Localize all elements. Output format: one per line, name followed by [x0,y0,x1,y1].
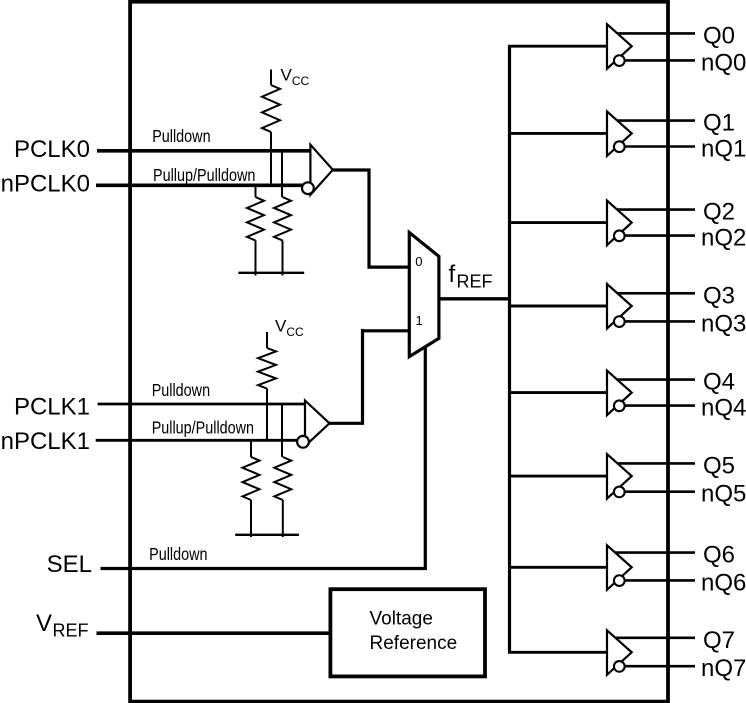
output buffer Q6 triangle [607,545,632,590]
wire nQ4 output line [620,404,695,407]
svg-text:nQ6: nQ6 [701,569,746,596]
wire nPCLK0 input line [96,184,303,188]
svg-text:Reference: Reference [370,633,458,654]
wire pulldown chain from PCLK1 [281,404,283,457]
wire U2 output to mux input 1 [330,329,410,423]
voltage reference block [330,589,485,676]
wire VREF input line [97,631,333,635]
svg-text:nQ4: nQ4 [701,395,746,422]
svg-text:VCC: VCC [281,66,310,89]
wire bus branch to output buffer 1 [508,132,607,135]
resistor pullup to VCC on nPCLK1 [258,348,276,389]
resistor pulldown on PCLK1 [274,457,291,500]
wire bus branch to output buffer 5 [508,475,607,478]
output buffer Q7 triangle [607,630,632,675]
wire nQ1 output line [620,145,695,148]
wire Q4 output line [611,378,695,381]
inversion bubble on nPCLK0 input [302,182,314,194]
svg-text:Pulldown: Pulldown [152,381,210,401]
net VCC (input stage 1) tick [266,332,268,348]
wire PCLK1 input line [98,403,305,406]
wire pulldown chain from nPCLK1 [250,440,252,457]
svg-text:nPCLK0: nPCLK0 [1,171,90,198]
wire nQ2 output line [620,234,695,237]
svg-text:nPCLK1: nPCLK1 [1,428,90,455]
resistor pullup to VCC on nPCLK0 [262,85,280,132]
svg-text:Q6: Q6 [703,542,735,569]
wire Q1 output line [611,119,695,122]
svg-text:Q0: Q0 [703,22,735,49]
svg-text:1: 1 [416,313,423,328]
wire Q3 output line [611,292,695,295]
svg-text:VCC: VCC [275,316,304,339]
wire resistor to ground [250,500,252,537]
svg-text:Pullup/Pulldown: Pullup/Pulldown [153,165,255,185]
wire Q7 output line [611,636,695,639]
svg-text:SEL: SEL [47,551,92,578]
ground bar (input stage 1) [235,534,299,536]
inversion bubble nQ4 [614,400,625,411]
wire nQ7 output line [620,665,695,668]
mux select wire from SEL [101,346,426,569]
chip boundary box [130,2,668,702]
svg-text:REF: REF [53,621,89,641]
resistor pulldown on nPCLK0 [247,197,264,240]
svg-text:nQ3: nQ3 [701,310,746,337]
svg-text:Voltage: Voltage [370,609,433,630]
wire VCC resistor to nPCLK0 line [270,132,272,185]
wire nQ0 output line [620,59,695,62]
svg-text:nQ1: nQ1 [701,136,746,163]
wire bus branch to output buffer 6 [508,566,607,569]
inversion bubble nQ1 [614,141,625,152]
wire nQ5 output line [620,490,695,493]
resistor pulldown on nPCLK1 [243,457,260,500]
svg-text:Q3: Q3 [703,282,735,309]
wire bus branch to output buffer 4 [508,391,607,394]
input buffer U1 (PCLK0/nPCLK0) [310,145,332,195]
wire pulldown chain from PCLK0 [281,151,283,197]
wire fREF mux output to bus [439,297,511,300]
inversion bubble nQ3 [614,316,625,327]
svg-text:Q1: Q1 [703,110,735,137]
svg-text:PCLK1: PCLK1 [14,394,90,421]
wire bus branch to output buffer 7 [508,651,607,654]
wire Q5 output line [611,462,695,465]
wire bus branch to output buffer 3 [508,305,607,308]
wire nQ6 output line [620,579,695,582]
ground bar (input stage 0) [238,272,304,274]
wire bus branch to output buffer 0 [508,45,607,48]
output buffer Q5 triangle [607,454,632,499]
wire resistor to ground [282,241,284,276]
inversion bubble nQ6 [614,575,625,586]
svg-text:Pulldown: Pulldown [149,544,207,564]
wire bus branch to output buffer 2 [508,221,607,224]
svg-text:Q7: Q7 [703,627,735,654]
inversion bubble nQ2 [614,230,625,241]
svg-text:REF: REF [457,272,493,292]
svg-text:PCLK0: PCLK0 [14,136,90,163]
inversion bubble nQ0 [614,55,625,66]
svg-text:Pullup/Pulldown: Pullup/Pulldown [152,418,254,438]
bus vertical distribution net [508,46,511,652]
svg-text:nQ7: nQ7 [701,655,746,682]
inversion bubble nQ7 [614,661,625,672]
wire Q2 output line [611,208,695,211]
wire U1 output to mux input 0 [333,170,410,267]
mux U3 [409,233,439,357]
wire pulldown chain from nPCLK0 [255,185,257,197]
wire nQ3 output line [620,320,695,323]
resistor pulldown on PCLK0 [274,197,291,240]
wire resistor to ground [282,500,284,537]
output buffer Q3 triangle [607,284,632,329]
input buffer U2 (PCLK1/nPCLK1) [305,401,330,447]
svg-text:nQ2: nQ2 [701,225,746,252]
svg-text:V: V [36,610,52,637]
inversion bubble nQ5 [614,487,625,498]
svg-text:f: f [449,261,456,288]
svg-text:nQ0: nQ0 [701,49,746,76]
wire VCC resistor to nPCLK1 line [266,389,268,441]
output buffer Q2 triangle [607,201,632,246]
output buffer Q4 triangle [607,371,632,416]
inversion bubble on nPCLK1 input [297,436,309,448]
wire PCLK0 input line [97,149,310,153]
wire Q0 output line [611,32,695,35]
svg-text:Q2: Q2 [703,199,735,226]
svg-text:nQ5: nQ5 [701,481,746,508]
svg-text:0: 0 [415,254,422,269]
output buffer Q0 triangle [607,24,632,68]
output buffer Q1 triangle [607,111,632,155]
svg-text:Pulldown: Pulldown [152,127,210,147]
wire Q6 output line [611,551,695,554]
net VCC (input stage 0) tick [270,70,272,86]
wire nPCLK1 input line [96,439,298,442]
wire resistor to ground [255,241,257,276]
svg-text:Q5: Q5 [703,452,735,479]
svg-text:Q4: Q4 [703,369,735,396]
